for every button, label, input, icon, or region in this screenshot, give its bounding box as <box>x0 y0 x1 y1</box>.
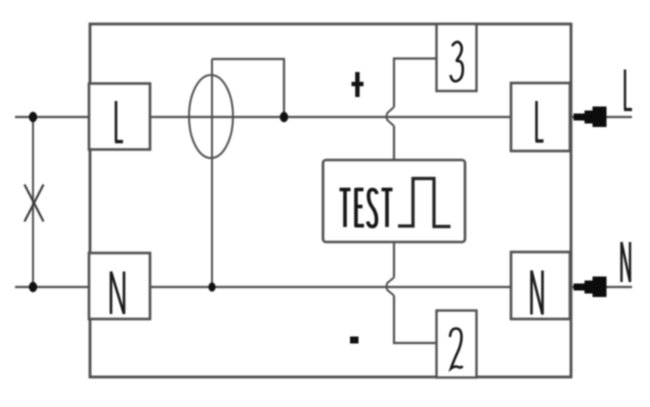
wire hop over N <box>386 278 394 296</box>
current transformer CT <box>189 75 233 158</box>
wire N internal <box>150 286 511 288</box>
wire N output stub <box>570 286 632 288</box>
connector plug N <box>574 277 607 298</box>
terminal box 3 <box>437 24 477 91</box>
label 3 <box>451 42 463 81</box>
label L terminal <box>624 70 632 110</box>
node A junction dot L <box>29 112 37 122</box>
node C junction dot loop <box>280 112 288 122</box>
node B junction dot N <box>29 282 37 292</box>
terminal box L right <box>511 83 570 151</box>
label L right <box>536 101 544 141</box>
label TEST <box>340 188 393 227</box>
wire TEST to hop N <box>393 242 395 278</box>
plus sign <box>352 72 364 97</box>
wire L internal <box>150 116 511 118</box>
wire CT secondary vertical <box>211 59 213 287</box>
wire CT loop top <box>212 59 284 117</box>
wire to box 2 <box>394 296 437 344</box>
connector plug L <box>574 107 607 128</box>
wire hop over L <box>386 107 394 126</box>
TEST button box <box>323 160 465 242</box>
wire link vertical left <box>32 117 34 287</box>
terminal box N right <box>511 252 570 319</box>
label N right <box>532 271 543 315</box>
label N terminal <box>622 242 631 282</box>
label N left <box>111 272 124 315</box>
wire 3 to test <box>394 59 437 108</box>
pulse waveform icon <box>398 179 451 227</box>
wire down to TEST <box>393 126 395 160</box>
terminal box N left <box>89 253 150 319</box>
enclosure outline <box>90 24 571 377</box>
wire N supply left <box>15 286 89 288</box>
terminal box L left <box>89 84 150 150</box>
terminal box 2 <box>437 311 477 378</box>
node D junction dot N <box>208 282 215 291</box>
wire L output stub <box>570 116 632 118</box>
label 2 <box>450 329 463 369</box>
minus sign <box>350 337 359 344</box>
wire L supply left <box>15 116 89 118</box>
label L left <box>115 101 123 142</box>
fuse/disconnect X symbol <box>25 185 44 222</box>
